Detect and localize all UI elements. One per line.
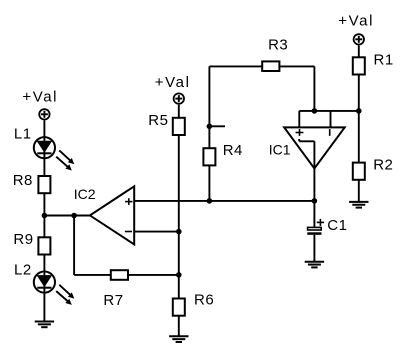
svg-text:R5: R5: [148, 112, 168, 129]
svg-text:IC1: IC1: [269, 142, 291, 158]
svg-text:R9: R9: [13, 231, 33, 248]
svg-text:R4: R4: [223, 142, 243, 159]
svg-text:+Val: +Val: [22, 88, 58, 105]
svg-text:L1: L1: [14, 125, 32, 142]
svg-text:L2: L2: [14, 262, 32, 279]
svg-text:R8: R8: [13, 172, 33, 189]
svg-text:R1: R1: [374, 51, 394, 68]
svg-text:C1: C1: [327, 217, 347, 234]
svg-text:+Val: +Val: [338, 13, 374, 30]
svg-text:+Val: +Val: [155, 74, 191, 91]
svg-text:R3: R3: [268, 37, 288, 54]
svg-text:R7: R7: [103, 292, 123, 309]
svg-text:IC2: IC2: [74, 186, 96, 202]
svg-text:R2: R2: [373, 157, 393, 174]
svg-text:R6: R6: [194, 291, 214, 308]
